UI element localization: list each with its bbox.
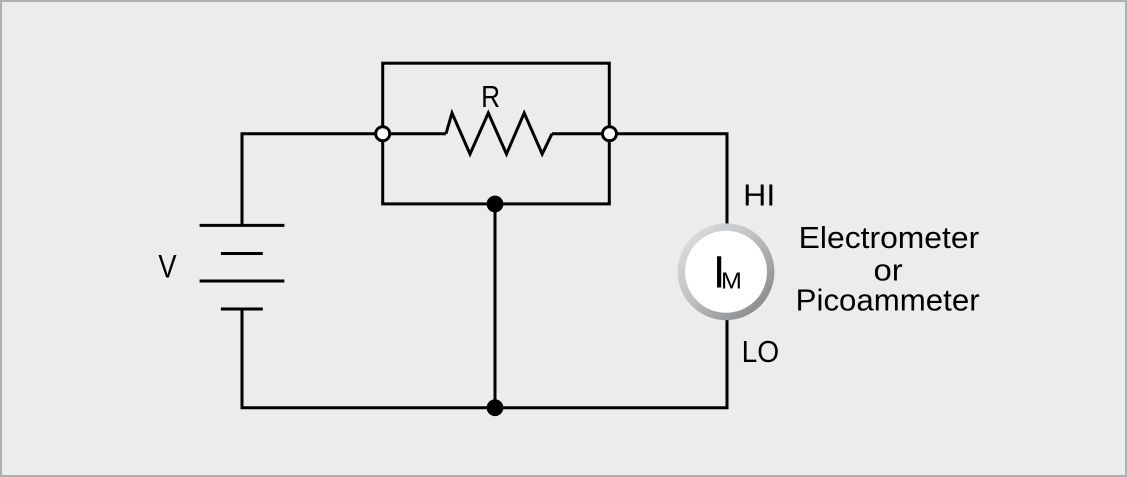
- caption: Electrometer or Picoammeter: [796, 220, 980, 318]
- wire: bottom rail junction to meter LO terminal: [495, 318, 727, 408]
- guard box: [383, 63, 610, 204]
- resistor R: [446, 113, 552, 154]
- meter IM (electrometer / picoammeter): [681, 227, 770, 316]
- junction dot at guard box bottom: [487, 196, 504, 213]
- svg-text:LO: LO: [742, 334, 780, 369]
- wire: node B right and down to meter HI terminal: [552, 134, 727, 227]
- junction dot on bottom rail: [487, 399, 504, 416]
- battery V: [200, 225, 285, 309]
- wire: guard box bottom junction down to bottom rail: [494, 204, 497, 408]
- wire: battery positive up and right to node A: [242, 134, 446, 226]
- wire: battery negative down to bottom rail junction: [242, 309, 495, 408]
- node A (open terminal, guard box left): [376, 127, 390, 141]
- node B (open terminal, guard box right): [603, 127, 617, 141]
- svg-text:M: M: [721, 268, 742, 294]
- svg-text:Picoammeter: Picoammeter: [796, 283, 980, 318]
- svg-text:HI: HI: [743, 178, 775, 212]
- svg-text:R: R: [481, 80, 500, 114]
- svg-text:V: V: [158, 248, 176, 284]
- svg-text:Electrometer: Electrometer: [799, 220, 980, 255]
